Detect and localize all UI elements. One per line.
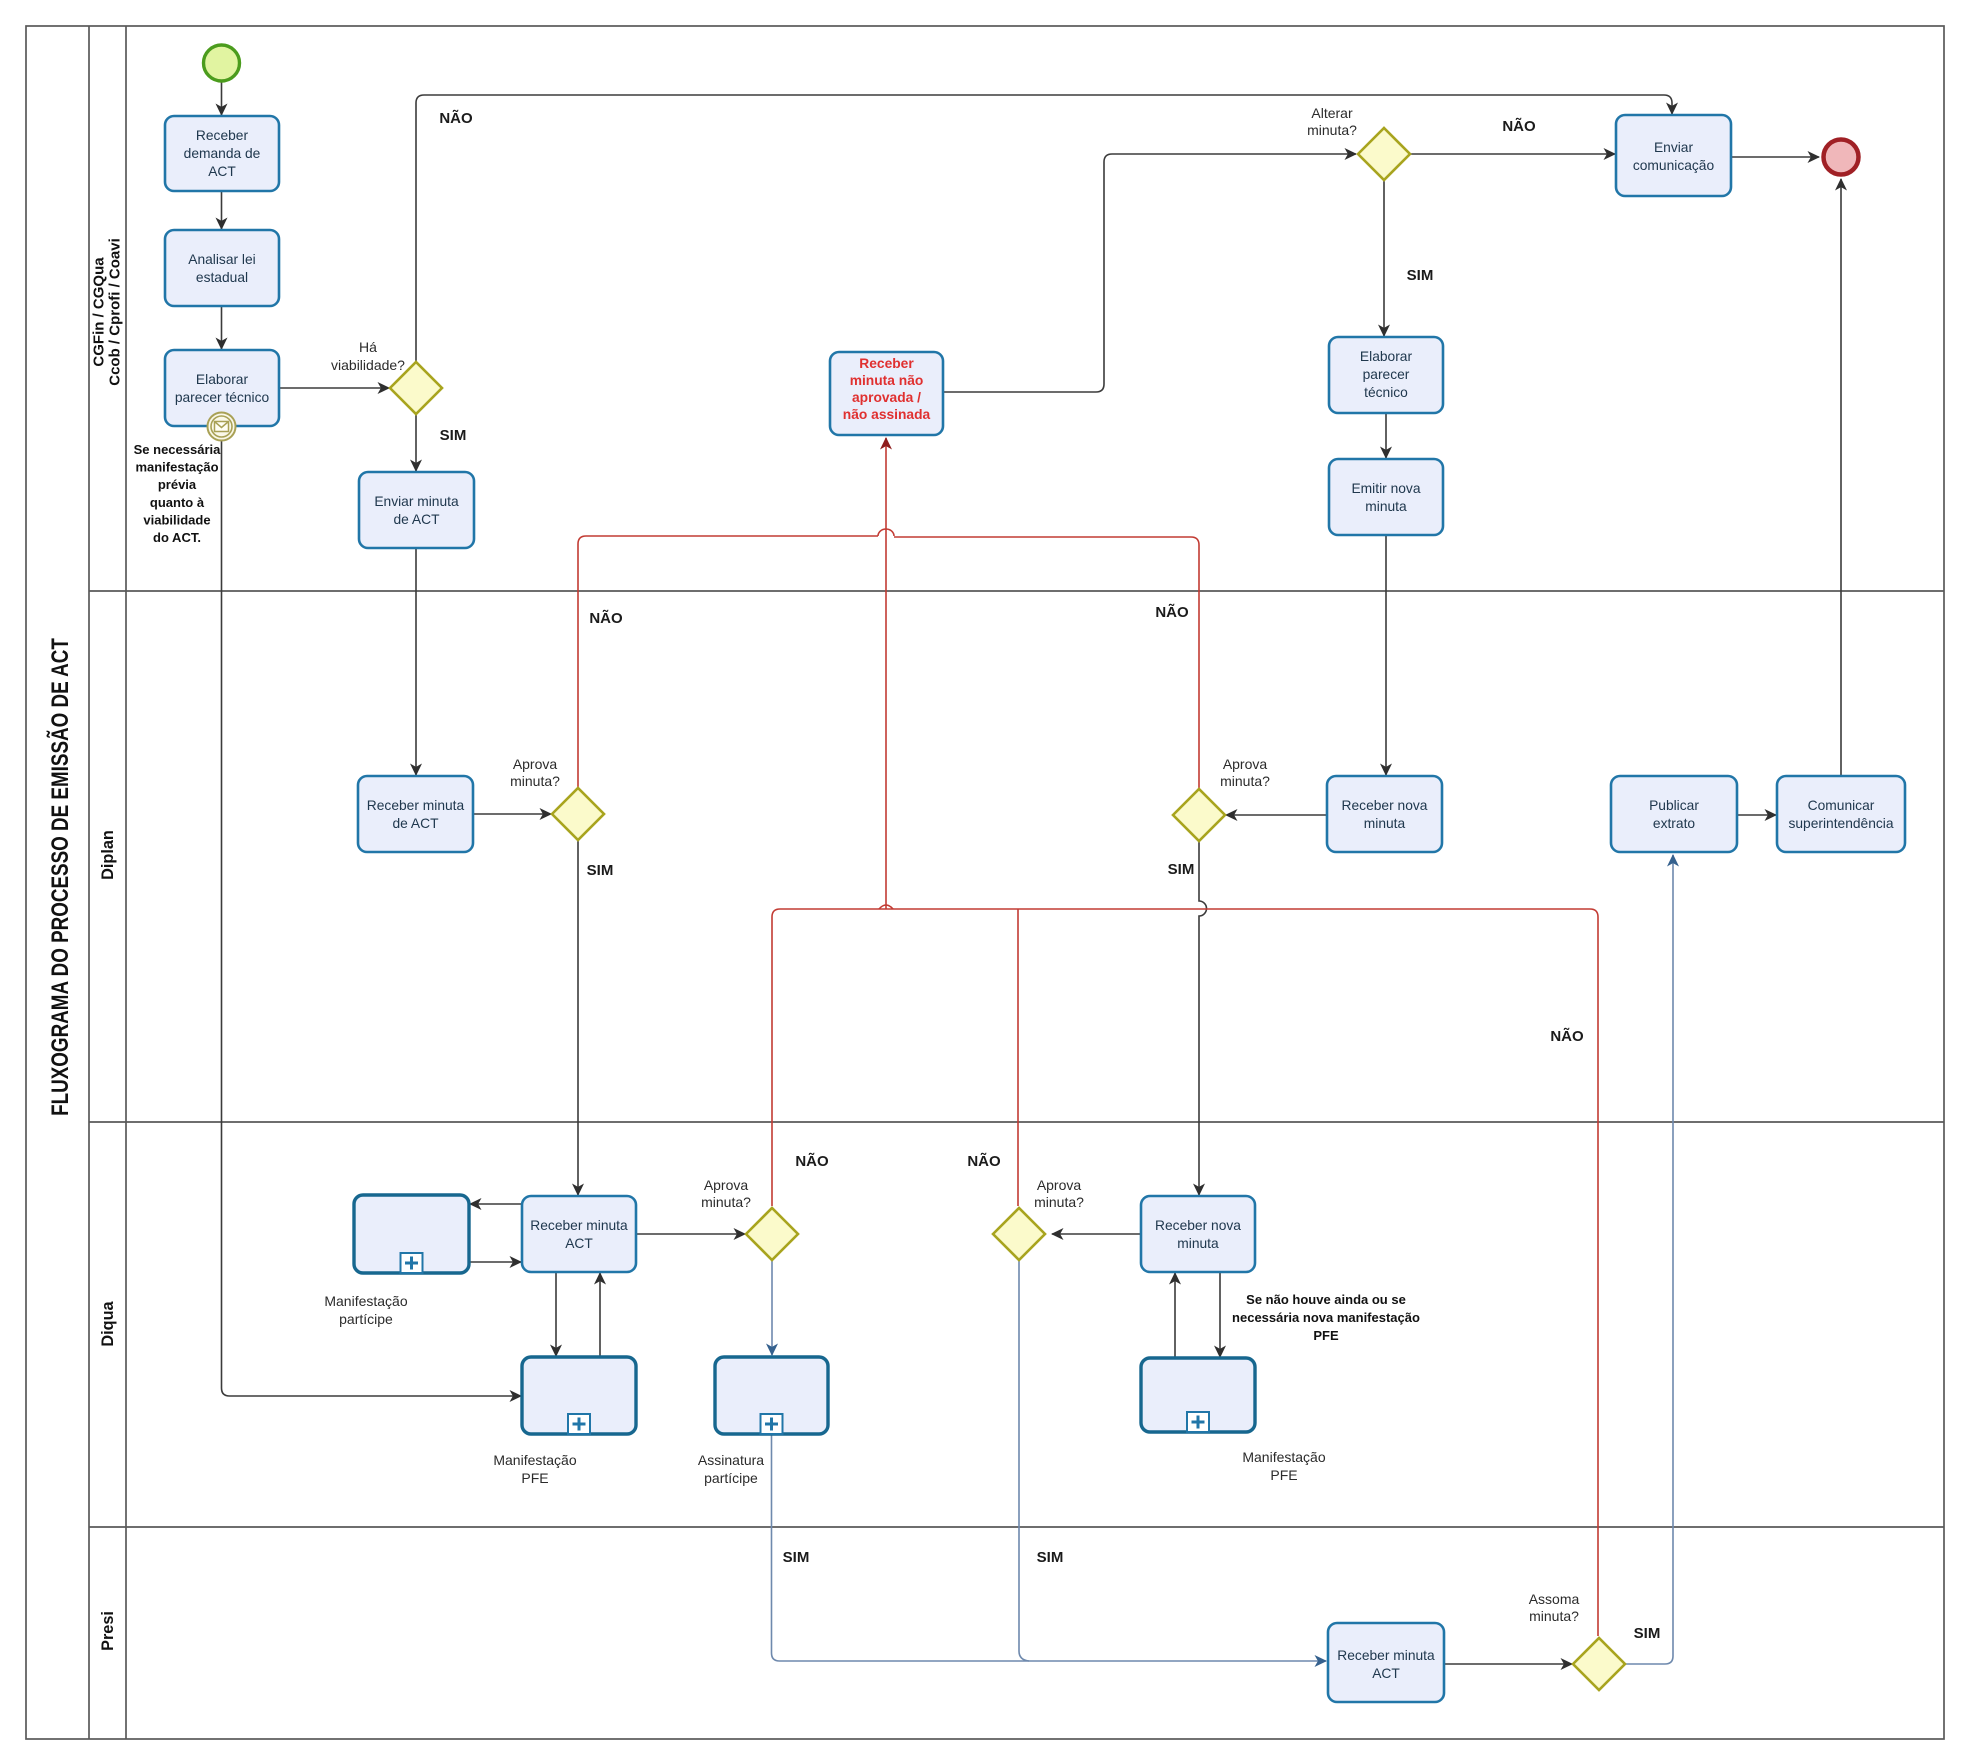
svg-text:NÃO: NÃO (967, 1152, 1001, 1170)
svg-text:SIM: SIM (1037, 1549, 1064, 1566)
gateway Aprova minuta (Diplan 1) (552, 788, 604, 840)
wire Assinatura participe to Receber minuta ACT (Presi) (772, 1434, 1327, 1661)
svg-text:minuta?: minuta? (510, 773, 560, 789)
wire Receber minuta ACT to Manifestacao participe (470, 1203, 522, 1205)
wire Enviar comunicacao to end event (1731, 156, 1819, 158)
wire Elaborar parecer 2 to Emitir nova minuta (1385, 413, 1387, 458)
subprocess Manifestacao participe (354, 1195, 469, 1273)
wire Comunicar superintendencia up to end event (1840, 179, 1842, 776)
wire Ha viabilidade NAO to Enviar comunicacao (416, 95, 1672, 362)
wire red junction bump (879, 905, 893, 909)
svg-text:CGFin / CGQua: CGFin / CGQua (91, 257, 108, 367)
svg-text:FLUXOGRAMA DO PROCESSO DE EMIS: FLUXOGRAMA DO PROCESSO DE EMISSÃO DE ACT (46, 638, 74, 1116)
svg-text:Aprova: Aprova (704, 1177, 749, 1193)
red wires (578, 438, 1598, 1636)
wire Publicar extrato to Comunicar superintendencia (1737, 814, 1776, 816)
svg-text:NÃO: NÃO (1502, 117, 1536, 135)
start event (204, 45, 240, 81)
svg-text:Se necessáriamanifestaçãoprévi: Se necessáriamanifestaçãopréviaquanto àv… (134, 442, 222, 545)
svg-text:Ccob / Cprofi / Coavi: Ccob / Cprofi / Coavi (107, 238, 124, 386)
svg-text:Aprova: Aprova (513, 756, 558, 772)
svg-text:SIM: SIM (1407, 267, 1434, 284)
svg-text:minuta?: minuta? (701, 1194, 751, 1210)
svg-text:Assoma: Assoma (1529, 1591, 1580, 1607)
wire Emitir nova minuta to Receber nova minuta (Diplan) (1385, 535, 1387, 775)
svg-text:NÃO: NÃO (589, 609, 623, 627)
wire Receber minuta de ACT to Aprova minuta (Diplan 1) (473, 813, 551, 815)
gateway Alterar minuta (1358, 128, 1410, 180)
wire Manifestacao participe to Receber minuta ACT (469, 1261, 521, 1263)
wire Aprova minuta (Diqua 1) SIM to Assinatura participe (771, 1261, 773, 1355)
task Analisar lei estadual (165, 230, 279, 306)
wire Receber minuta nao aprovada to Alterar minuta (943, 154, 1356, 392)
wire Receber nova minuta (Diqua) down to Manifestacao PFE 2 (1219, 1272, 1221, 1357)
end event (1824, 140, 1859, 175)
svg-text:PFE: PFE (521, 1470, 548, 1486)
svg-text:PFE: PFE (1270, 1467, 1297, 1483)
svg-text:NÃO: NÃO (1155, 603, 1189, 621)
wire Elaborar parecer to Ha viabilidade (279, 387, 389, 389)
wire red jump arc over vertical (878, 529, 894, 536)
task Enviar minuta de ACT (359, 472, 474, 548)
svg-text:NÃO: NÃO (795, 1152, 829, 1170)
wire red branch down to Aprova minuta (Diqua 2) (1017, 909, 1019, 1206)
wire red horizontal tree (Diqua/Presi NAO paths) (772, 909, 1598, 1636)
wire Receber minuta ACT (Presi) to Assoma minuta (1444, 1663, 1572, 1665)
wire Receber minuta ACT (Diqua) to Aprova minuta (Diqua 1) (636, 1233, 745, 1235)
svg-text:Diplan: Diplan (99, 830, 117, 880)
svg-text:minuta?: minuta? (1220, 773, 1270, 789)
svg-text:Assinatura: Assinatura (698, 1452, 764, 1468)
subprocess Manifestacao PFE (522, 1357, 636, 1434)
wire Aprova minuta (Diqua 2) SIM merge (1019, 1260, 1029, 1661)
wire Manifestacao PFE up to Receber minuta ACT (599, 1273, 601, 1357)
svg-text:Elaborarparecertécnico: Elaborarparecertécnico (1360, 349, 1413, 400)
task Enviar comunicacao (1616, 115, 1731, 196)
svg-text:viabilidade?: viabilidade? (331, 357, 405, 373)
wire Analisar lei to Elaborar parecer (221, 306, 223, 349)
blue wires (772, 855, 1674, 1664)
boundary message event (208, 413, 236, 441)
svg-text:Há: Há (359, 339, 377, 355)
wire Alterar minuta SIM to Elaborar parecer tecnico 2 (1383, 180, 1385, 336)
svg-text:SIM: SIM (440, 427, 467, 444)
subprocess Assinatura participe (715, 1357, 828, 1434)
svg-text:Manifestação: Manifestação (493, 1452, 576, 1468)
wire Receber minuta ACT down to Manifestacao PFE (555, 1272, 557, 1356)
wire Aprova minuta 1 NAO up (red) (578, 536, 878, 789)
svg-text:SIM: SIM (587, 862, 614, 879)
task Receber minuta de ACT (Diplan) (358, 776, 473, 852)
svg-text:minuta?: minuta? (1034, 1194, 1084, 1210)
task Receber nova minuta (Diplan) (1327, 776, 1442, 852)
wire red vertical into Receber minuta nao aprovada (885, 438, 887, 909)
wire Receber demanda to Analisar lei (221, 191, 223, 229)
svg-text:Manifestação: Manifestação (324, 1293, 407, 1309)
wire Alterar minuta NAO to Enviar comunicacao (1410, 153, 1615, 155)
wire Assoma minuta SIM up to Publicar extrato (1625, 855, 1673, 1664)
wire Receber nova minuta (Diqua) to Aprova minuta (Diqua 2) (1052, 1233, 1141, 1235)
task Publicar extrato (1611, 776, 1737, 852)
wire Aprova minuta 2 SIM down to Receber nova minuta (Diqua), hop over red (1199, 841, 1207, 1195)
svg-text:Presi: Presi (99, 1611, 117, 1651)
svg-text:minuta?: minuta? (1529, 1608, 1579, 1624)
svg-text:Alterar: Alterar (1311, 105, 1353, 121)
wire Ha viabilidade SIM to Enviar minuta (415, 414, 417, 471)
gateway Ha viabilidade (390, 362, 442, 414)
task Elaborar parecer tecnico (165, 350, 279, 426)
task Receber demanda de ACT (165, 116, 279, 191)
svg-text:Manifestação: Manifestação (1242, 1449, 1325, 1465)
task Emitir nova minuta (1329, 459, 1443, 535)
wire Aprova minuta SIM down to Receber minuta ACT (Diqua) (577, 840, 579, 1195)
svg-text:NÃO: NÃO (1550, 1027, 1584, 1045)
gateway Aprova minuta (Diqua 2) (993, 1208, 1045, 1260)
task Receber minuta ACT (Diqua) (522, 1196, 636, 1272)
svg-text:SIM: SIM (783, 1549, 810, 1566)
svg-text:partícipe: partícipe (339, 1311, 393, 1327)
task Receber nova minuta (Diqua) (1141, 1196, 1255, 1272)
gateway Aprova minuta (Diplan 2) (1173, 789, 1225, 841)
wire start to Receber demanda (221, 83, 223, 116)
wire Enviar minuta to Receber minuta de ACT (415, 548, 417, 775)
wire Manifestacao PFE 2 up to Receber nova minuta (Diqua) (1174, 1273, 1176, 1358)
gateway Aprova minuta (Diqua 1) (746, 1208, 798, 1260)
lane label CGFin/CGQua/Ccob/Cprofi/Coavi (91, 238, 124, 386)
svg-text:Aprova: Aprova (1223, 756, 1268, 772)
task Receber minuta nao aprovada / nao assinada (830, 352, 943, 435)
task Comunicar superintendencia (1777, 776, 1905, 852)
subprocess Manifestacao PFE 2 (1141, 1358, 1255, 1432)
svg-text:minuta?: minuta? (1307, 122, 1357, 138)
wire boundary message event down to Manifestacao PFE (222, 441, 522, 1396)
svg-text:Diqua: Diqua (99, 1300, 117, 1346)
task Elaborar parecer tecnico 2 (1329, 337, 1443, 413)
svg-text:Aprova: Aprova (1037, 1177, 1082, 1193)
task Receber minuta ACT (Presi) (1328, 1623, 1444, 1702)
wire Receber nova minuta to Aprova minuta (Diplan 2) (1226, 814, 1327, 816)
svg-text:SIM: SIM (1168, 861, 1195, 878)
svg-text:Se não houve ainda ou senecess: Se não houve ainda ou senecessária nova … (1232, 1292, 1420, 1343)
wire Aprova minuta 2 NAO up-left (red) (894, 537, 1199, 789)
svg-text:partícipe: partícipe (704, 1470, 758, 1486)
svg-text:NÃO: NÃO (439, 109, 473, 127)
svg-text:SIM: SIM (1634, 1625, 1661, 1642)
gateway Assoma minuta (1573, 1638, 1625, 1690)
